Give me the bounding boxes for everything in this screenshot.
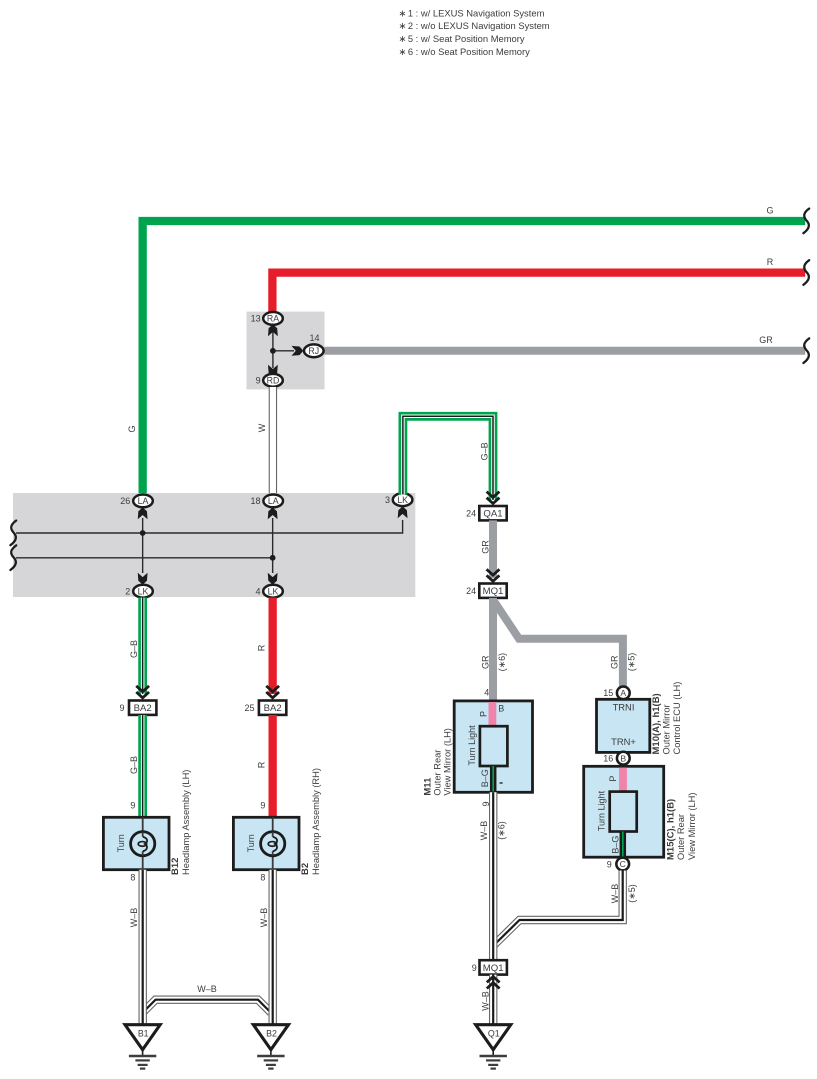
connector LK pin 2 (125, 585, 153, 598)
wire W (white) RD to LA18 (257, 387, 273, 496)
svg-text:View Mirror (LH): View Mirror (LH) (442, 728, 452, 796)
label B12 Headlamp Assembly (LH) (170, 770, 191, 875)
svg-text:LK: LK (397, 495, 408, 505)
wire G-B BA2 to B12 (129, 715, 143, 817)
svg-text:15: 15 (603, 688, 613, 698)
pin 9 of B12 (130, 801, 135, 811)
svg-text:TRN+: TRN+ (611, 736, 636, 747)
connector BA2 pin 9 (119, 701, 156, 715)
junction block (gray) with RA/RJ/RD (247, 312, 325, 390)
svg-text:RD: RD (267, 376, 280, 386)
svg-text:9: 9 (472, 963, 477, 973)
svg-text:B2: B2 (300, 863, 311, 875)
svg-text:GR: GR (759, 335, 773, 345)
label Turn Light in M15 (597, 790, 607, 831)
svg-text:M10(A), h1(B): M10(A), h1(B) (651, 693, 662, 754)
turn bulb B2 (261, 832, 285, 856)
wire RA to RD inside block (273, 330, 294, 368)
wire B-G inside M15 (611, 832, 623, 857)
connector MQ1 pin 9 bottom (472, 960, 507, 974)
wire inside B12 (142, 817, 144, 869)
svg-text:Control ECU (LH): Control ECU (LH) (672, 682, 682, 755)
svg-text:RA: RA (267, 314, 279, 324)
svg-text:LK: LK (268, 586, 279, 596)
svg-text:View Mirror (LH): View Mirror (LH) (687, 793, 697, 861)
connector LA pin 18 (250, 495, 283, 508)
connector RD pin 9 (256, 374, 283, 387)
svg-text:Outer Rear: Outer Rear (432, 750, 442, 796)
svg-text:25: 25 (244, 703, 254, 713)
chevron into BA2 pin25 (266, 686, 279, 698)
label M15 Outer Rear View Mirror (LH) (666, 793, 697, 861)
turn bulb B12 (131, 832, 155, 856)
svg-text:Turn Light: Turn Light (597, 790, 607, 831)
svg-text:GR: GR (480, 655, 490, 669)
svg-text:GR: GR (610, 655, 620, 669)
pin mark I inside M11 (500, 782, 503, 784)
wire B-G inside M11 (480, 766, 493, 792)
turn light unit inside M15 (610, 792, 637, 832)
connector LK pin 3 (385, 493, 412, 506)
svg-text:8: 8 (260, 872, 265, 882)
connector BA2 pin 25 (244, 701, 286, 715)
svg-text:P: P (608, 776, 618, 782)
svg-text:9: 9 (130, 801, 135, 811)
svg-text:8: 8 (130, 872, 135, 882)
label Turn in B2 (246, 834, 256, 852)
svg-text:(∗5): (∗5) (627, 653, 637, 672)
arrow right into RJ (292, 346, 304, 356)
svg-text:9: 9 (607, 859, 612, 869)
svg-text:BA2: BA2 (264, 703, 282, 714)
wire inside B2 (272, 817, 274, 869)
component M11 Outer Rear View Mirror LH box (454, 701, 532, 792)
svg-text:G: G (766, 206, 773, 216)
svg-text:W: W (257, 423, 267, 432)
pin 9 of M11 (481, 801, 491, 806)
wire GR branch MQ1 to pin A (493, 600, 637, 688)
svg-text:W–B: W–B (480, 991, 490, 1011)
svg-text:G: G (127, 425, 137, 432)
brace wire-continuation left line1 (10, 521, 16, 546)
wire GR QA1 to MQ1 (480, 520, 493, 578)
svg-text:4: 4 (484, 688, 489, 698)
ground B1 (125, 1025, 160, 1069)
main junction block (gray band) (13, 493, 415, 597)
svg-text:Turn: Turn (246, 834, 256, 852)
connector LK pin 4 (255, 585, 282, 598)
svg-text:B2: B2 (266, 1028, 277, 1038)
ground Q1 (476, 1025, 511, 1069)
svg-text:W–B: W–B (129, 908, 139, 928)
wire R LK4 to BA2 (257, 598, 273, 695)
brace wire-continuation left line2 (10, 545, 16, 570)
connector LA pin 26 (120, 495, 153, 508)
wire W-B MQ1-9 to ground Q1 (480, 975, 493, 1024)
component B2 Headlamp Assembly RH box (233, 817, 299, 869)
arrow up into RA (268, 324, 278, 336)
svg-text:B: B (498, 704, 504, 714)
svg-text:Q1: Q1 (488, 1028, 500, 1038)
pin circle B 16 (603, 752, 629, 765)
svg-text:A: A (620, 688, 626, 698)
svg-text:M15(C), h1(B): M15(C), h1(B) (666, 799, 677, 860)
junction node dot (270, 348, 276, 354)
wire P inside M11 (478, 702, 504, 726)
svg-text:9: 9 (260, 801, 265, 811)
component M10 Outer Mirror Control ECU LH box (597, 699, 650, 752)
wire G (green) squiggle to LA26 (143, 206, 806, 497)
svg-text:B–G: B–G (611, 836, 621, 854)
label Turn in B12 (116, 834, 126, 852)
label M11 Outer Rear View Mirror (LH) (422, 728, 452, 796)
svg-text:R: R (257, 761, 267, 768)
chevron up below MQ1-9 (487, 977, 500, 989)
wire col1 inside band (142, 518, 144, 573)
wire W-B M11 to MQ1-9 (479, 792, 507, 960)
svg-text:W–B: W–B (259, 908, 269, 928)
svg-text:GR: GR (480, 540, 490, 554)
turn light unit inside M11 (480, 726, 508, 766)
svg-text:G–B: G–B (480, 442, 490, 460)
label G on green vertical (127, 425, 137, 432)
wire G-B LK2 to BA2 (129, 598, 143, 695)
svg-text:B12: B12 (170, 858, 181, 875)
svg-text:W–B: W–B (197, 984, 217, 994)
component B12 Headlamp Assembly LH box (103, 817, 169, 869)
svg-text:LA: LA (268, 496, 279, 506)
bus line2 inside band (16, 557, 273, 559)
svg-text:QA1: QA1 (483, 509, 502, 520)
wire W-B B2 to ground B2 (259, 870, 273, 1024)
svg-text:16: 16 (603, 754, 613, 764)
break symbol right end of R wire (803, 260, 809, 285)
svg-text:24: 24 (466, 586, 476, 596)
pin 9 of B2 (260, 801, 265, 811)
svg-text:C: C (620, 859, 626, 869)
arrow up into LA18 (268, 508, 278, 520)
connector RJ pin 14 (304, 333, 324, 357)
wire W-B B12 to ground B1 (129, 870, 143, 1024)
pin 8 of B12 (130, 872, 135, 882)
legend notes (*1,*2,*5,*6 options) (399, 7, 550, 56)
pin 4 of M11 (484, 688, 489, 698)
svg-text:MQ1: MQ1 (483, 586, 504, 597)
pin circle A 15 (603, 687, 629, 700)
ground B2 (253, 1025, 288, 1069)
wire GR (gray) RJ to squiggle (324, 335, 806, 351)
svg-text:(∗5): (∗5) (627, 884, 637, 903)
svg-text:∗5 : w/ Seat Position Memory: ∗5 : w/ Seat Position Memory (399, 33, 525, 44)
svg-text:G–B: G–B (129, 640, 139, 658)
svg-text:P: P (478, 711, 488, 717)
wire W-B link between B1 and B2 (143, 984, 271, 1013)
svg-text:R: R (257, 644, 267, 651)
svg-text:18: 18 (250, 496, 260, 506)
label Turn Light in M11 (467, 725, 477, 766)
svg-text:Headlamp Assembly (RH): Headlamp Assembly (RH) (311, 768, 321, 875)
svg-text:B: B (620, 753, 626, 763)
svg-text:W–B: W–B (479, 821, 489, 841)
wire R BA2 to B2 (257, 715, 273, 817)
svg-text:∗1 : w/ LEXUS Navigation Syste: ∗1 : w/ LEXUS Navigation System (399, 7, 545, 18)
svg-text:9: 9 (119, 703, 124, 713)
chevron into BA2 pin9 (136, 686, 149, 698)
svg-text:TRNI: TRNI (613, 702, 635, 713)
svg-text:MQ1: MQ1 (483, 963, 504, 974)
node dot col2 line2 (270, 555, 276, 561)
chevron into QA1 (487, 492, 500, 504)
svg-text:26: 26 (120, 496, 130, 506)
svg-text:LK: LK (138, 586, 149, 596)
svg-text:(∗6): (∗6) (497, 653, 507, 672)
svg-text:(∗6): (∗6) (497, 821, 507, 840)
svg-text:13: 13 (251, 314, 261, 324)
svg-text:LA: LA (138, 496, 149, 506)
label M10 Outer Mirror Control ECU (LH) (651, 682, 682, 755)
chevron into MQ1 (487, 569, 500, 581)
svg-text:Headlamp Assembly (LH): Headlamp Assembly (LH) (181, 770, 191, 875)
svg-text:3: 3 (385, 495, 390, 505)
svg-text:Outer Rear: Outer Rear (676, 814, 686, 860)
svg-text:G–B: G–B (129, 756, 139, 774)
svg-text:Turn: Turn (116, 834, 126, 852)
svg-text:2: 2 (125, 586, 130, 596)
svg-text:W–B: W–B (610, 884, 620, 904)
svg-text:BA2: BA2 (134, 703, 152, 714)
node dot col1 line1 (140, 530, 146, 536)
bus line1 inside band (16, 520, 403, 533)
wire GR MQ1 to M11 pin4 (480, 598, 507, 701)
arrow up into LK3 (398, 506, 408, 518)
wire W-B C to MQ1-9 junction (494, 871, 637, 948)
svg-text:∗2 : w/o LEXUS Navigation Syst: ∗2 : w/o LEXUS Navigation System (399, 20, 550, 31)
svg-text:RJ: RJ (308, 346, 319, 356)
break symbol right end of GR wire (803, 338, 809, 363)
svg-text:4: 4 (255, 586, 260, 596)
label B2 Headlamp Assembly (RH) (300, 768, 321, 875)
svg-text:B–G: B–G (480, 769, 490, 787)
connector QA1 pin 24 (466, 506, 507, 520)
connector RA pin 13 (251, 312, 283, 325)
wire P inside M15 (608, 768, 623, 792)
pin 8 of B2 (260, 872, 265, 882)
arrow down into RD (268, 365, 278, 377)
component M15 Outer Rear View Mirror LH box (584, 766, 664, 857)
arrow down into LK2 (138, 573, 148, 585)
svg-text:9: 9 (256, 376, 261, 386)
connector MQ1 pin 24 (466, 584, 507, 598)
arrow down into LK4 (268, 573, 278, 585)
svg-text:Turn Light: Turn Light (467, 725, 477, 766)
svg-text:∗6 : w/o Seat Position Memory: ∗6 : w/o Seat Position Memory (399, 46, 531, 57)
pin circle C 9 (607, 858, 629, 871)
svg-text:Outer Mirror: Outer Mirror (662, 704, 672, 754)
svg-text:14: 14 (309, 333, 319, 343)
svg-text:R: R (767, 257, 774, 267)
svg-text:24: 24 (466, 509, 476, 519)
arrow up into LA26 (138, 508, 148, 520)
wire G-B LK3 to QA1 (403, 416, 493, 500)
wire col2 inside band (272, 518, 274, 573)
wire R (red) squiggle to RA (272, 257, 805, 313)
svg-text:B1: B1 (138, 1028, 149, 1038)
break symbol right end of G wire (803, 209, 809, 234)
